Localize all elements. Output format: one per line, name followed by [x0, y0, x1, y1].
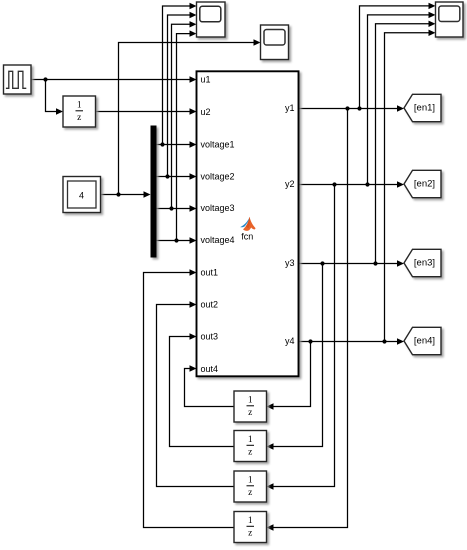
wire y4 up to scope S3 port4	[385, 30, 436, 342]
svg-text:z: z	[248, 488, 252, 498]
wire voltage3 tap up to scope S1 port3	[172, 21, 197, 208]
wire constant to demux	[101, 191, 151, 197]
wire y1 to goto en1	[299, 105, 405, 111]
junction y4 scope tap	[382, 339, 386, 343]
svg-text:1: 1	[77, 101, 82, 111]
svg-text:out4: out4	[201, 364, 219, 374]
wire y1 down to unit delay UD5	[267, 109, 348, 531]
svg-text:z: z	[248, 447, 252, 457]
wire y2 to goto en2	[299, 181, 405, 187]
junction y1 feedback tap	[345, 106, 349, 110]
wire junction down to unit delay UD1	[46, 80, 64, 115]
wire constant junction up to scope S2	[119, 39, 261, 194]
svg-text:y3: y3	[285, 258, 295, 268]
scope S3	[436, 2, 464, 37]
svg-text:out1: out1	[201, 268, 219, 278]
junction y4 feedback tap	[308, 339, 312, 343]
junction y2 feedback tap	[332, 182, 336, 186]
svg-text:voltage2: voltage2	[201, 172, 235, 182]
svg-text:1: 1	[248, 516, 253, 526]
junction y3 scope tap	[373, 261, 377, 265]
junction y1 scope tap	[357, 106, 361, 110]
wire demux out3 to voltage3	[157, 205, 197, 211]
unit delay UD5	[234, 512, 267, 543]
wire unit delay UD3 to out3	[170, 333, 235, 446]
svg-text:z: z	[248, 408, 252, 418]
svg-text:out2: out2	[201, 300, 219, 310]
svg-text:1: 1	[248, 476, 253, 486]
wire voltage1 tap up to scope S1 port1	[163, 3, 197, 145]
svg-text:[en2]: [en2]	[414, 179, 435, 190]
svg-text:u2: u2	[201, 107, 211, 117]
svg-text:[en3]: [en3]	[414, 258, 435, 269]
wire y3 up to scope S3 port3	[376, 21, 436, 264]
svg-text:fcn: fcn	[241, 232, 253, 242]
unit delay UD4	[234, 471, 267, 502]
wire unit delay UD1 to u2	[96, 108, 197, 114]
demux	[151, 126, 157, 258]
MATLAB function block U1	[197, 71, 299, 376]
goto block en1	[404, 94, 441, 121]
wire demux out4 to voltage4	[157, 237, 197, 243]
wire demux out2 to voltage2	[157, 173, 197, 179]
unit delay UD1	[63, 96, 96, 127]
wire demux out1 to voltage1	[157, 141, 197, 147]
wire unit delay UD5 to out1	[144, 269, 235, 527]
svg-text:y2: y2	[285, 179, 295, 189]
wire y2 down to unit delay UD4	[267, 185, 335, 490]
wire pulse generator to u1	[31, 76, 197, 82]
constant block value 4	[63, 177, 101, 213]
svg-text:z: z	[248, 528, 252, 538]
svg-text:u1: u1	[201, 75, 211, 85]
svg-text:z: z	[77, 113, 81, 123]
wire y3 down to unit delay UD3	[267, 264, 323, 450]
svg-text:out3: out3	[201, 332, 219, 342]
svg-text:voltage1: voltage1	[201, 139, 235, 149]
svg-text:y4: y4	[285, 336, 295, 346]
junction y2 scope tap	[365, 182, 369, 186]
junction voltage1 tap	[160, 142, 164, 146]
goto block en4	[404, 327, 441, 354]
goto block en3	[404, 249, 441, 276]
wire unit delay UD2 to out4	[185, 365, 235, 406]
wire y4 to goto en4	[299, 338, 405, 344]
wire y3 to goto en3	[299, 260, 405, 266]
svg-text:1: 1	[248, 435, 253, 445]
wire voltage4 tap up to scope S1 port4	[177, 30, 197, 240]
junction constant output node	[116, 192, 120, 196]
unit delay UD3	[234, 431, 267, 462]
svg-text:1: 1	[248, 396, 253, 406]
wire y4 down to unit delay UD2	[267, 342, 311, 410]
junction pulse output node	[43, 77, 47, 81]
svg-text:y1: y1	[285, 103, 295, 113]
junction y3 feedback tap	[320, 261, 324, 265]
svg-text:[en1]: [en1]	[414, 103, 435, 114]
junction voltage2 tap	[165, 174, 169, 178]
svg-text:voltage4: voltage4	[201, 235, 235, 245]
MATLAB logo icon	[240, 217, 255, 231]
pulse generator block	[4, 65, 32, 94]
scope S2	[261, 25, 289, 60]
scope S1	[197, 2, 226, 37]
unit delay UD2	[234, 391, 267, 422]
junction voltage3 tap	[169, 206, 173, 210]
svg-text:[en4]: [en4]	[414, 336, 435, 347]
wire y1 up to scope S3 port1	[360, 3, 436, 109]
goto block en2	[404, 170, 441, 197]
junction voltage4 tap	[174, 238, 178, 242]
svg-text:voltage3: voltage3	[201, 203, 235, 213]
wire y2 up to scope S3 port2	[368, 12, 436, 185]
wire unit delay UD4 to out2	[157, 301, 235, 486]
wire voltage2 tap up to scope S1 port2	[168, 12, 197, 177]
svg-text:4: 4	[79, 191, 84, 201]
